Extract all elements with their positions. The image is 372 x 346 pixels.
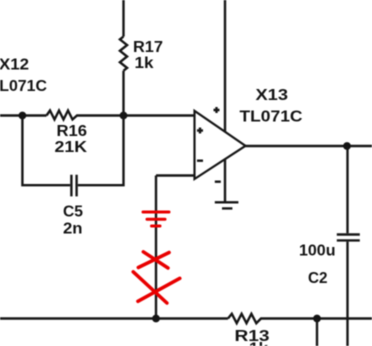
junction node at R17/R16/C5 right	[120, 112, 128, 120]
svg-text:21K: 21K	[55, 139, 88, 156]
svg-text:TL071C: TL071C	[0, 78, 47, 95]
junction node at left (C5/R16/input)	[19, 112, 27, 120]
resistor R16	[47, 111, 79, 120]
junction node feedback/bottom net	[152, 315, 160, 323]
svg-text:1k: 1k	[249, 341, 268, 346]
svg-text:R17: R17	[133, 39, 163, 56]
svg-text:X13: X13	[256, 87, 289, 104]
wire: inverting input horizontal from feedback net	[156, 174, 195, 176]
svg-text:C5: C5	[63, 204, 83, 221]
svg-text:X12: X12	[0, 57, 29, 74]
wire: feedback net vertical x=156 down to bottom net	[155, 176, 157, 319]
op-amp inverting input marker -	[197, 159, 203, 161]
wire: C2 branch vertical	[346, 146, 348, 346]
svg-text:R16: R16	[57, 123, 88, 140]
red annotation: large X cross-out	[133, 272, 180, 303]
svg-text:1k: 1k	[135, 55, 154, 72]
capacitor C2	[337, 235, 360, 241]
svg-text:100u: 100u	[299, 242, 336, 259]
svg-text:TL071C: TL071C	[240, 109, 303, 126]
wire: C5 feedback loop (left vertical, bottom horizontal, right vertical)	[22, 115, 123, 186]
red annotation: small X cross-out	[138, 252, 169, 268]
resistor R13	[228, 314, 262, 323]
ground	[215, 202, 239, 208]
resistor R17	[120, 37, 127, 71]
svg-text:2n: 2n	[63, 221, 83, 238]
wire: R17 branch from top edge down to main net	[122, 0, 124, 116]
wire: main input net y=115.5 from left edge to op-amp noninverting input	[0, 114, 195, 116]
op-amp V+ power marker +	[214, 107, 220, 113]
wire: stub from bottom net down to bottom edge	[316, 319, 318, 346]
svg-text:C2: C2	[308, 270, 328, 287]
wire: V- power from op-amp down to ground	[224, 160, 226, 202]
wire: output net from op-amp to right edge	[246, 145, 372, 147]
op-amp X13 triangle	[195, 111, 246, 179]
junction node output/C2 branch	[343, 142, 351, 150]
red annotation: ground mark on feedback net	[143, 212, 169, 226]
wire: V+ power from top edge to op-amp	[224, 0, 226, 132]
junction node bottom net / stub	[313, 315, 321, 323]
op-amp V- power marker -	[215, 180, 221, 182]
capacitor C5	[71, 175, 76, 197]
op-amp noninverting input marker +	[197, 128, 203, 134]
wire: bottom net y=318.5 across full width	[0, 317, 372, 319]
